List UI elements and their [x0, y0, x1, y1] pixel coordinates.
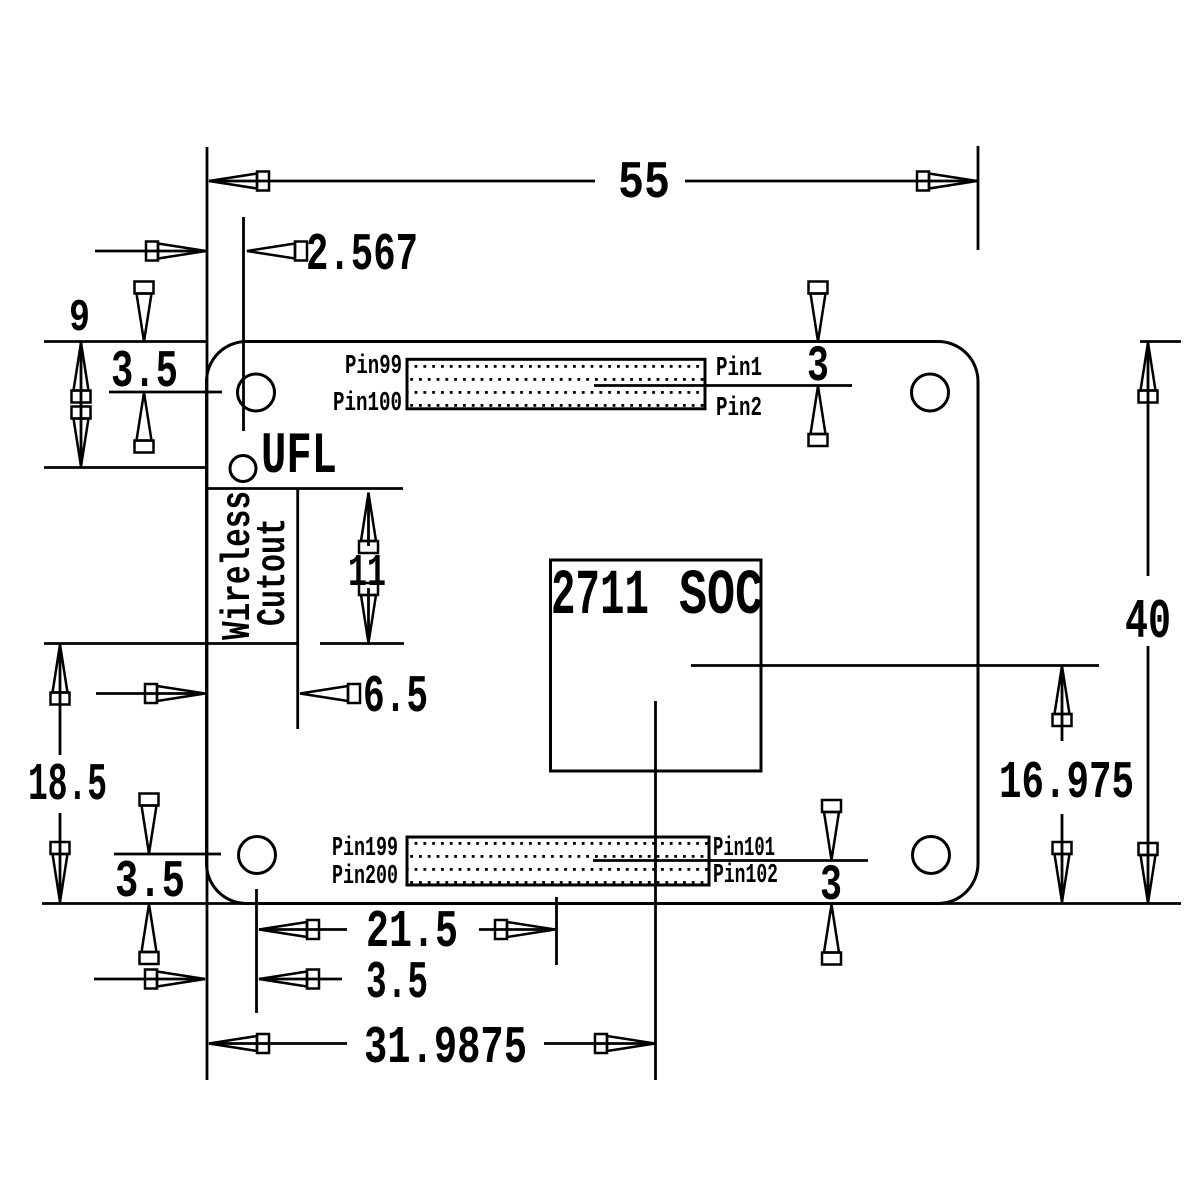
SOC vertical centerline — [654, 701, 657, 1080]
svg-text:40: 40 — [1125, 590, 1171, 654]
extension line right vertical (top) — [977, 146, 980, 250]
40 top extension segment — [1140, 340, 1181, 343]
dim 40 vertical — [1147, 342, 1150, 576]
dim 3.5 top-left: hole center leader — [109, 391, 222, 394]
svg-text:11: 11 — [348, 548, 386, 599]
mounting hole top-right — [912, 374, 949, 411]
dim 6.5 — [96, 692, 204, 695]
top connector pin row leader — [594, 384, 852, 387]
UFL connector circle — [230, 456, 256, 482]
mounting hole bottom-left — [239, 837, 276, 874]
mounting hole top-left — [238, 374, 275, 411]
wireless cutout bottom line + 18.5 extension — [44, 642, 298, 645]
bottom edge extension line (full) — [42, 902, 1181, 905]
dim 21.5 — [259, 920, 319, 939]
svg-text:3.5: 3.5 — [111, 342, 178, 402]
extension line for 2.567 — [242, 217, 245, 431]
svg-text:UFL: UFL — [261, 425, 337, 490]
svg-text:2.567: 2.567 — [306, 225, 418, 285]
svg-text:3.5: 3.5 — [366, 953, 428, 1013]
svg-text:16.975: 16.975 — [999, 753, 1134, 813]
dim 31.9875 — [209, 1034, 269, 1053]
svg-text:9: 9 — [69, 293, 90, 344]
svg-text:Cutout: Cutout — [251, 518, 297, 626]
svg-text:3: 3 — [807, 339, 829, 396]
svg-text:Pin99: Pin99 — [345, 352, 402, 382]
svg-text:SOC: SOC — [679, 561, 763, 633]
svg-text:3: 3 — [820, 858, 842, 915]
extension line left vertical — [206, 147, 209, 1080]
dim 18.5 arrows — [59, 644, 62, 755]
dim 55 line — [209, 180, 595, 183]
dim 2.567 — [95, 250, 207, 253]
svg-text:Pin199: Pin199 — [332, 834, 398, 864]
svg-text:18.5: 18.5 — [28, 755, 107, 815]
bottom connector hatched — [407, 837, 709, 885]
11 dim bottom extension segment — [320, 642, 404, 645]
bottom connector pin row leader — [593, 859, 868, 862]
svg-text:2711: 2711 — [551, 561, 649, 633]
svg-text:6.5: 6.5 — [363, 667, 428, 727]
mounting hole bottom-right — [913, 837, 950, 874]
dim 9 vertical — [80, 342, 83, 467]
svg-text:Pin2: Pin2 — [716, 394, 762, 424]
svg-text:55: 55 — [618, 153, 670, 213]
bottom hole centerline extension — [255, 889, 258, 1013]
dim 16.975 arrows — [1053, 666, 1072, 726]
extension line top edge left — [44, 340, 206, 343]
SOC horizontal centerline / 16.975 leader — [691, 664, 1099, 667]
svg-text:Pin200: Pin200 — [332, 862, 398, 892]
dim 3 top — [809, 282, 828, 342]
svg-text:31.9875: 31.9875 — [364, 1018, 527, 1078]
dim 3.5 bottom — [94, 978, 205, 981]
dim 3.5 bottom-left hole leader — [114, 853, 221, 856]
svg-text:Pin100: Pin100 — [333, 389, 402, 419]
wireless cutout top line — [207, 487, 403, 490]
dim 3 bottom — [822, 800, 841, 860]
top connector hatched — [407, 359, 705, 409]
svg-text:Pin1: Pin1 — [716, 354, 762, 384]
SOC box — [551, 560, 762, 771]
21.5 right tick — [555, 897, 558, 965]
svg-text:Pin102: Pin102 — [713, 861, 778, 891]
board outline — [207, 342, 979, 904]
wireless cutout right edge — [296, 489, 299, 730]
dim 11 vertical — [367, 493, 370, 547]
extension line UFL centerline left — [44, 466, 207, 469]
